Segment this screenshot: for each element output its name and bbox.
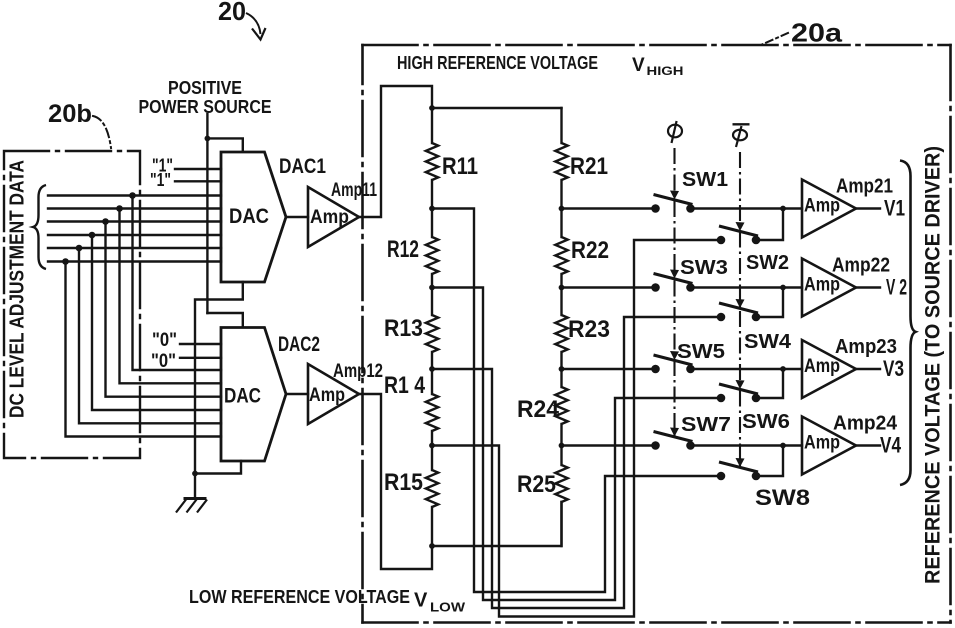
- svg-text:LOW REFERENCE VOLTAGE: LOW REFERENCE VOLTAGE: [189, 587, 410, 607]
- switch SW4: [719, 303, 758, 313]
- svg-text:R13: R13: [384, 315, 423, 342]
- junction dot on data wire 4: [89, 232, 96, 239]
- branch wire 5 to DAC2: [79, 248, 221, 423]
- DAC U2 (DAC2) body: [221, 328, 286, 462]
- wire left ladder segment 1: [431, 108, 433, 143]
- svg-text:SW6: SW6: [742, 411, 790, 433]
- svg-text:SW8: SW8: [755, 485, 810, 510]
- svg-text:"0": "0": [152, 330, 177, 351]
- junction dot at amplifier input row 3: [780, 366, 786, 372]
- svg-text:Amp: Amp: [804, 433, 840, 454]
- svg-text:REFERENCE VOLTAGE (TO SOURCE D: REFERENCE VOLTAGE (TO SOURCE DRIVER): [922, 146, 945, 584]
- junction dot on ground rail: [192, 471, 198, 477]
- wire DAC2 bottom to ground rail: [195, 461, 241, 474]
- svg-text:R11: R11: [442, 153, 478, 180]
- svg-text:Amp: Amp: [310, 207, 349, 228]
- wire Amp23 output V3: [856, 368, 880, 370]
- wire left ladder segment 2: [431, 180, 433, 237]
- branch wire 2 to DAC2: [120, 209, 222, 384]
- wire right ladder segment 2: [560, 180, 562, 237]
- resistor R24: [555, 387, 567, 424]
- junction dot on data wire 3: [102, 218, 109, 225]
- svg-text:R23: R23: [568, 316, 610, 343]
- svg-text:V: V: [414, 590, 428, 612]
- svg-text:Amp24: Amp24: [833, 413, 898, 435]
- junction dot on data wire 6: [62, 258, 69, 265]
- data bus wire 6 to DAC1: [48, 260, 221, 262]
- wire SW7 output to amplifier: [695, 444, 803, 446]
- clock line phi: [673, 148, 675, 438]
- svg-text:20a: 20a: [791, 18, 843, 48]
- junction dot node N2: [429, 285, 435, 291]
- data bus wire 2 to DAC1: [48, 207, 221, 209]
- svg-text:V4: V4: [880, 433, 902, 458]
- svg-text:Amp11: Amp11: [331, 180, 377, 201]
- wire from “0” lower to DAC2: [180, 357, 221, 359]
- clock signal phi symbol: [668, 125, 682, 138]
- op-amp Amp11 body: [308, 187, 359, 247]
- svg-text:SW2: SW2: [746, 252, 789, 274]
- svg-text:Amp: Amp: [804, 275, 840, 296]
- junction dot node M3: [559, 366, 565, 372]
- data bus wire 4 to DAC1: [48, 234, 221, 236]
- junction dot node N3: [429, 366, 435, 372]
- switch SW8: [719, 462, 758, 472]
- branch wire 3 to DAC2: [106, 222, 222, 397]
- node N4 tap route to SW2: [432, 240, 717, 617]
- wire V_LOW rail link: [432, 502, 562, 546]
- svg-text:SW4: SW4: [744, 331, 792, 353]
- dash-dot boundary box 20b: [4, 151, 140, 458]
- data bus wire 1 to DAC1: [48, 194, 221, 196]
- data bus wire 5 to DAC1: [48, 247, 221, 249]
- switch SW6: [719, 384, 758, 394]
- wire DAC1 bottom to ground rail: [195, 282, 243, 497]
- svg-text:DC LEVEL ADJUSTMENT DATA: DC LEVEL ADJUSTMENT DATA: [7, 160, 29, 418]
- wire left ladder segment 5: [431, 431, 433, 470]
- svg-text:SW5: SW5: [677, 341, 725, 363]
- switch SW3: [654, 274, 693, 284]
- svg-text:R24: R24: [517, 396, 560, 423]
- svg-text:SW7: SW7: [681, 414, 731, 436]
- resistor R12: [426, 237, 438, 274]
- wire Amp22 output V2: [856, 286, 880, 288]
- svg-text:Amp: Amp: [804, 196, 840, 217]
- svg-text:DAC: DAC: [224, 385, 261, 408]
- ground symbol: [184, 497, 207, 500]
- wire SW2 output joining amplifier input: [760, 209, 783, 241]
- svg-text:V1: V1: [884, 196, 905, 221]
- op-amp Amp22 body: [802, 259, 856, 317]
- svg-text:V: V: [632, 55, 645, 76]
- wire from “1” upper to DAC1: [175, 168, 221, 170]
- power stub wire into DAC2 top: [207, 313, 242, 327]
- wire right ladder segment 4: [560, 352, 562, 387]
- wire DAC2 output to Amp12: [286, 393, 308, 395]
- svg-text:DAC: DAC: [229, 205, 269, 228]
- wire SW5 output to amplifier: [695, 368, 803, 370]
- svg-text:Amp21: Amp21: [836, 176, 893, 198]
- wire from “0” upper to DAC2: [180, 343, 221, 345]
- junction dot at V_LOW node: [429, 543, 435, 549]
- svg-text:Amp: Amp: [804, 356, 840, 377]
- DAC U1 (DAC1) body: [221, 152, 286, 282]
- svg-text:20: 20: [218, 0, 246, 26]
- wire node M4 tap to SW7: [562, 444, 652, 446]
- leader line for 20b: [93, 116, 111, 148]
- dash-dot boundary box 20a: [363, 45, 951, 623]
- junction dot on data wire 1: [129, 192, 136, 199]
- svg-text:DAC1: DAC1: [279, 155, 326, 178]
- resistor R11: [426, 143, 438, 180]
- wire right ladder segment 3: [560, 274, 562, 315]
- wire SW6 output joining amplifier input: [760, 369, 783, 398]
- wire SW1 output to amplifier: [695, 207, 803, 209]
- resistor R13: [426, 315, 438, 352]
- svg-text:Amp: Amp: [309, 385, 345, 406]
- wire DAC1 output to Amp11: [286, 216, 308, 218]
- svg-text:SW3: SW3: [680, 257, 728, 279]
- resistor R23: [555, 315, 567, 352]
- switch SW7: [654, 432, 693, 442]
- node N1 tap route to SW8: [432, 209, 717, 593]
- switch SW1: [654, 195, 693, 205]
- junction dot at amplifier input row 4: [780, 443, 786, 449]
- op-amp Amp21 body: [802, 180, 856, 238]
- svg-text:SW1: SW1: [682, 169, 728, 191]
- junction dot at amplifier input row 2: [780, 285, 786, 291]
- svg-text:R12: R12: [387, 236, 419, 263]
- svg-text:R1 4: R1 4: [384, 372, 426, 399]
- wire V_HIGH rail link: [432, 107, 562, 109]
- wire right ladder segment 5: [560, 424, 562, 465]
- resistor R25: [555, 465, 567, 502]
- wire SW8 output joining amplifier input: [760, 446, 783, 477]
- junction dot on data wire 2: [116, 205, 123, 212]
- svg-text:20b: 20b: [48, 100, 92, 128]
- wire from “1” lower to DAC1: [175, 180, 221, 182]
- resistor R15: [426, 470, 438, 507]
- brace for reference voltage outputs: [900, 161, 916, 486]
- switch SW5: [654, 355, 693, 365]
- wire Amp21 output V1: [856, 207, 880, 209]
- wire left ladder segment 3: [431, 274, 433, 315]
- junction dot at amplifier input row 1: [780, 206, 786, 212]
- svg-text:DAC2: DAC2: [278, 333, 320, 356]
- wire Amp24 output V4: [856, 444, 880, 446]
- positive power supply wire: [206, 114, 208, 313]
- junction dot on power wire: [205, 136, 211, 142]
- junction dot node N4: [429, 443, 435, 449]
- junction dot node N1: [429, 206, 435, 212]
- node N3 tap route to SW4: [432, 317, 717, 608]
- wire right ladder segment 6: [560, 502, 562, 546]
- wire Amp12 output to bottom of ladder: [359, 394, 432, 569]
- resistor R22: [555, 237, 567, 274]
- brace for adjustment data bus: [33, 185, 46, 269]
- op-amp Amp12 body: [308, 364, 359, 424]
- svg-text:R25: R25: [517, 471, 556, 498]
- wire left ladder segment 6: [431, 507, 433, 546]
- clock line phi-bar: [739, 152, 741, 469]
- data bus wire 3 to DAC1: [48, 220, 221, 222]
- junction dot at V_HIGH node: [429, 105, 435, 111]
- clock signal phi-bar symbol: [733, 130, 747, 141]
- svg-text:R22: R22: [571, 237, 609, 264]
- switch SW2: [719, 226, 758, 236]
- wire node M1 tap to SW1: [562, 207, 652, 209]
- svg-text:LOW: LOW: [430, 600, 466, 615]
- power stub wire into DAC1 top: [207, 138, 242, 151]
- svg-text:R21: R21: [570, 153, 608, 180]
- op-amp Amp23 body: [802, 340, 856, 398]
- branch wire 4 to DAC2: [92, 235, 221, 410]
- wire left ladder segment 4: [431, 352, 433, 394]
- junction dot on data wire 5: [76, 245, 83, 252]
- svg-text:HIGH: HIGH: [647, 64, 684, 78]
- resistor R14: [426, 394, 438, 431]
- wire node M2 tap to SW3: [562, 286, 652, 288]
- wire Amp11 output to top of ladder: [359, 86, 432, 217]
- node N2 tap route to SW6: [432, 288, 717, 601]
- wire right ladder segment 1: [560, 108, 562, 143]
- arrow from label 20: [246, 13, 261, 34]
- junction dot node M4: [559, 443, 565, 449]
- svg-text:HIGH REFERENCE VOLTAGE: HIGH REFERENCE VOLTAGE: [397, 53, 598, 73]
- svg-text:POSITIVE: POSITIVE: [168, 78, 242, 98]
- resistor R21: [555, 143, 567, 180]
- svg-text:V3: V3: [883, 356, 904, 381]
- leader line for 20a: [762, 33, 788, 45]
- svg-text:R15: R15: [384, 469, 423, 496]
- svg-text:V 2: V 2: [886, 275, 907, 300]
- junction dot node M1: [559, 206, 565, 212]
- op-amp Amp24 body: [802, 417, 856, 475]
- branch wire 1 to DAC2: [133, 196, 222, 371]
- svg-text:Amp22: Amp22: [832, 255, 890, 277]
- svg-text:Amp23: Amp23: [835, 336, 897, 358]
- svg-text:Amp12: Amp12: [333, 361, 383, 382]
- svg-text:POWER SOURCE: POWER SOURCE: [139, 97, 272, 117]
- junction dot node M2: [559, 285, 565, 291]
- svg-text:"1": "1": [150, 170, 171, 190]
- wire SW4 output joining amplifier input: [760, 288, 783, 318]
- svg-text:"0": "0": [151, 351, 176, 372]
- branch wire 6 to DAC2: [66, 262, 222, 437]
- wire SW3 output to amplifier: [695, 286, 803, 288]
- wire node M3 tap to SW5: [562, 368, 652, 370]
